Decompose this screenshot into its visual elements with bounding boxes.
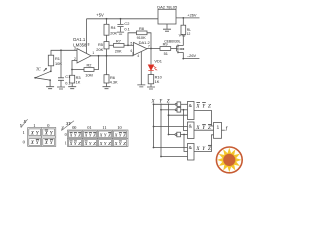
svg-text:XY: XY: [65, 121, 72, 126]
svg-text:X: X: [22, 119, 26, 124]
label R2 value: [85, 62, 93, 77]
wire R1 bottom to TC node: [50, 66, 52, 72]
inverter 2: [175, 109, 177, 111]
ground C2: [117, 32, 124, 34]
svg-text:4: 4: [137, 54, 139, 58]
wire AND2 to OR: [194, 129, 214, 131]
wire Z tap to AND1: [169, 114, 188, 116]
wire RL top to +26V rail: [182, 18, 184, 25]
wire DA1.1 output: [91, 53, 134, 56]
svg-text:–26V: –26V: [187, 53, 196, 58]
svg-text:00: 00: [72, 125, 76, 130]
svg-text:01: 01: [87, 125, 91, 130]
svg-text:Z: Z: [208, 103, 211, 109]
label R7 value: [115, 39, 122, 54]
label C2 value: [124, 21, 129, 32]
svg-text:5: 5: [131, 42, 133, 46]
wire R5 to divider node: [106, 49, 108, 56]
node output VD1: [150, 48, 152, 50]
wire R3 to ground: [71, 83, 73, 86]
wire LED to R10: [150, 71, 152, 75]
wire DA1.2 output: [147, 48, 160, 50]
table right row0 cells: [69, 131, 82, 138]
wire R7 to DA1.2 +input: [124, 44, 134, 46]
wire inverter 1 to AND1: [181, 103, 188, 105]
wire divider node to R6: [106, 56, 108, 75]
transistor VT1 MOSFET: [176, 46, 178, 52]
node junction C1 tap: [60, 49, 62, 51]
label C1 value: [65, 74, 70, 85]
capacitor C1: [58, 78, 64, 81]
node rail R4: [106, 18, 108, 20]
table left corner diagonal: [21, 119, 28, 128]
table left K-map grid: [28, 128, 56, 147]
svg-text:Y: Y: [119, 141, 122, 146]
regulator DA2: [158, 9, 176, 24]
table right K-map grid: [68, 130, 129, 147]
node divider junction: [106, 55, 108, 57]
table left cell notX notY: [43, 139, 55, 146]
svg-text:20K: 20K: [96, 47, 103, 52]
resistor R10: [148, 75, 154, 84]
wire NOT-Y branch to AND2: [184, 110, 188, 131]
svg-text:X: X: [84, 141, 88, 146]
svg-text:51: 51: [164, 51, 168, 56]
wire R6 to ground: [106, 83, 108, 86]
label DA1.1 LM358: [73, 37, 87, 47]
wire hysteresis loop to output: [147, 33, 151, 49]
svg-text:CEB6030L: CEB6030L: [164, 39, 180, 43]
svg-text:Z: Z: [123, 141, 126, 146]
label AND1 output (NOT-X NOT-Y Z): [195, 103, 211, 109]
svg-text:10: 10: [117, 125, 121, 130]
node +26V RL: [182, 17, 184, 19]
label AND2 output (X NOT-Y NOT-Z): [195, 125, 211, 131]
svg-text:X: X: [114, 141, 118, 146]
wire R4 to R5: [106, 35, 108, 41]
wire X bus: [153, 103, 155, 147]
svg-text:4.3K: 4.3K: [110, 79, 118, 84]
ground DA2: [163, 29, 171, 31]
svg-text:Z: Z: [208, 146, 211, 152]
gate AND3: [188, 144, 195, 161]
svg-text:C2: C2: [124, 21, 129, 26]
trimmer R5: [104, 42, 109, 49]
wire OR output: [222, 129, 225, 131]
label VT1: [164, 34, 185, 44]
table left column headers: [33, 123, 50, 128]
svg-text:Z: Z: [78, 141, 81, 146]
resistor R3: [70, 75, 75, 83]
inverter 3: [175, 134, 177, 136]
svg-text:+5V: +5V: [96, 13, 104, 18]
wire R10 to ground: [150, 84, 152, 87]
svg-text:1: 1: [92, 51, 94, 55]
svg-text:Y: Y: [89, 141, 92, 146]
svg-text:10M: 10M: [85, 72, 93, 77]
label R8 value: [137, 26, 146, 40]
resistor RL: [181, 25, 186, 35]
diode VD1 LED: [150, 49, 152, 65]
svg-text:1: 1: [65, 140, 67, 145]
wire C1 drop: [60, 50, 62, 77]
label RL value: [187, 28, 191, 36]
svg-text:20K: 20K: [110, 30, 117, 35]
TC adjust arrow: [44, 68, 47, 71]
op-amp DA1.2: [134, 42, 148, 55]
svg-text:X: X: [84, 132, 88, 137]
label R4 value: [110, 25, 117, 35]
wire Y tap to AND3: [161, 156, 188, 158]
svg-text:TC: TC: [36, 67, 41, 71]
wire DA2 ground pin: [166, 24, 168, 29]
node output R2: [98, 55, 100, 57]
svg-text:Y: Y: [89, 132, 92, 137]
wire DA1.1 V+ (pin 8) drop: [86, 19, 88, 54]
ground DA1.2: [137, 85, 145, 87]
svg-text:1: 1: [217, 124, 220, 130]
svg-text:X: X: [114, 132, 118, 137]
wire X tap to AND2: [154, 126, 188, 128]
label R9 value: [163, 41, 168, 56]
svg-text:R4: R4: [111, 25, 117, 30]
svg-text:0.1: 0.1: [124, 27, 129, 32]
gate AND2: [188, 122, 195, 139]
svg-text:Y: Y: [119, 132, 122, 137]
wire +5V rail: [87, 18, 159, 20]
svg-text:DA1.1: DA1.1: [73, 37, 86, 42]
wire DA1.2 V- to ground: [140, 52, 142, 85]
svg-text:Z: Z: [108, 132, 111, 137]
label R1 value: [55, 56, 62, 66]
wire X tap to inverter 1: [154, 103, 176, 105]
label R5 value: [96, 42, 103, 52]
wire DA1.1 -input: [72, 61, 77, 70]
svg-text:6: 6: [131, 49, 133, 53]
wire R9 to gate: [171, 48, 177, 50]
svg-text:8: 8: [88, 43, 90, 47]
svg-text:X: X: [99, 132, 103, 137]
logo sun: [216, 147, 242, 173]
label R3 value: [76, 75, 81, 85]
wire Z tap to inverter 3: [169, 134, 176, 136]
wire NOT-Z branch to AND3: [184, 135, 188, 152]
resistor R4: [104, 24, 109, 35]
svg-text:R7: R7: [116, 39, 121, 44]
resistor R1: [48, 55, 53, 66]
resistor R2: [84, 68, 94, 72]
wire source to -26V line: [182, 52, 184, 58]
wire inverter 3 to AND2: [181, 134, 188, 136]
svg-text:Y: Y: [104, 132, 107, 137]
ground R6: [103, 87, 111, 89]
op-amp DA1.1: [77, 49, 91, 64]
inverter 1: [175, 103, 177, 105]
svg-text:1: 1: [33, 123, 35, 128]
table right corner diagonal: [61, 121, 74, 131]
ground R3: [68, 87, 76, 89]
wire -26V line: [183, 58, 199, 60]
svg-text:Z: Z: [123, 132, 126, 137]
svg-text:Y: Y: [104, 141, 107, 146]
svg-text:X: X: [69, 132, 73, 137]
table left cell X notY: [29, 139, 41, 146]
wire R5 wiper to R7: [109, 44, 114, 46]
wire AND3 to OR: [194, 135, 214, 152]
wire to R2 left: [72, 69, 84, 71]
wire TC to ground: [49, 80, 51, 86]
table left cell notX Y: [43, 129, 55, 136]
gate OR: [214, 123, 222, 139]
resistor R9: [160, 47, 171, 51]
capacitor C2: [117, 24, 123, 26]
svg-text:X: X: [99, 141, 103, 146]
wire +26V rail: [176, 17, 200, 19]
svg-text:R2: R2: [87, 62, 92, 67]
wire R3 drop: [71, 70, 73, 76]
microphone TC symbol: [35, 71, 51, 80]
svg-text:X: X: [69, 141, 73, 146]
svg-text:Z: Z: [78, 132, 81, 137]
wire R2 right to output node: [94, 56, 99, 70]
wire hysteresis loop up: [128, 33, 137, 46]
svg-text:R8: R8: [139, 26, 144, 31]
gate AND1: [188, 102, 195, 120]
wire X tap to AND3: [154, 147, 188, 149]
wire rail to R4: [106, 19, 108, 25]
svg-text:7: 7: [148, 45, 150, 49]
node NOT-Y branch: [183, 109, 185, 111]
node hysteresis junction: [127, 44, 129, 46]
svg-text:Z: Z: [93, 132, 96, 137]
resistor R6: [104, 75, 109, 83]
wire C1 to ground: [60, 80, 62, 86]
label AND3 output (X Y NOT-Z): [195, 146, 211, 152]
svg-text:Z: Z: [108, 141, 111, 146]
svg-text:1: 1: [23, 130, 25, 135]
node -26V: [182, 58, 184, 60]
node feedback junction: [71, 69, 73, 71]
table left row headers: [23, 130, 26, 144]
wire Y bus: [160, 103, 162, 156]
svg-text:DA2 78L05: DA2 78L05: [157, 4, 178, 9]
table right row1 cells: [69, 140, 82, 147]
svg-text:Y: Y: [74, 132, 77, 137]
svg-text:Y: Y: [74, 141, 77, 146]
table right row headers: [65, 132, 67, 145]
wire rail to C2: [120, 19, 122, 25]
wire AND1 to OR: [194, 111, 214, 127]
svg-text:+26V: +26V: [187, 13, 197, 18]
node rail C2: [120, 18, 122, 20]
svg-text:11: 11: [102, 125, 106, 130]
table left cell XY: [29, 129, 41, 136]
svg-text:1K: 1K: [76, 79, 81, 84]
ground C1: [57, 87, 65, 89]
resistor R8: [137, 31, 148, 35]
wire C2 to ground: [120, 27, 122, 32]
label R10 value: [155, 75, 163, 84]
wire drain to RL: [182, 35, 184, 46]
svg-text:3: 3: [74, 47, 76, 51]
ground R10: [147, 87, 155, 89]
table right column headers: [72, 125, 121, 130]
svg-text:VD1: VD1: [154, 58, 162, 63]
svg-text:Z: Z: [93, 141, 96, 146]
wire inverter 2 to AND1: [181, 109, 188, 111]
wire Z bus: [168, 103, 170, 134]
wire Y tap to inverter 2: [161, 109, 175, 111]
svg-text:0: 0: [65, 132, 67, 137]
ground TC: [46, 87, 54, 89]
svg-text:1K: 1K: [155, 79, 160, 84]
label R6 value: [110, 75, 118, 85]
node NOT-Z branch: [183, 134, 185, 136]
resistor R7: [114, 44, 125, 48]
svg-text:VT1: VT1: [179, 34, 186, 38]
wire mic node to DA1.1 +input: [51, 50, 77, 55]
svg-text:20K: 20K: [115, 49, 122, 54]
svg-text:12: 12: [187, 32, 191, 36]
